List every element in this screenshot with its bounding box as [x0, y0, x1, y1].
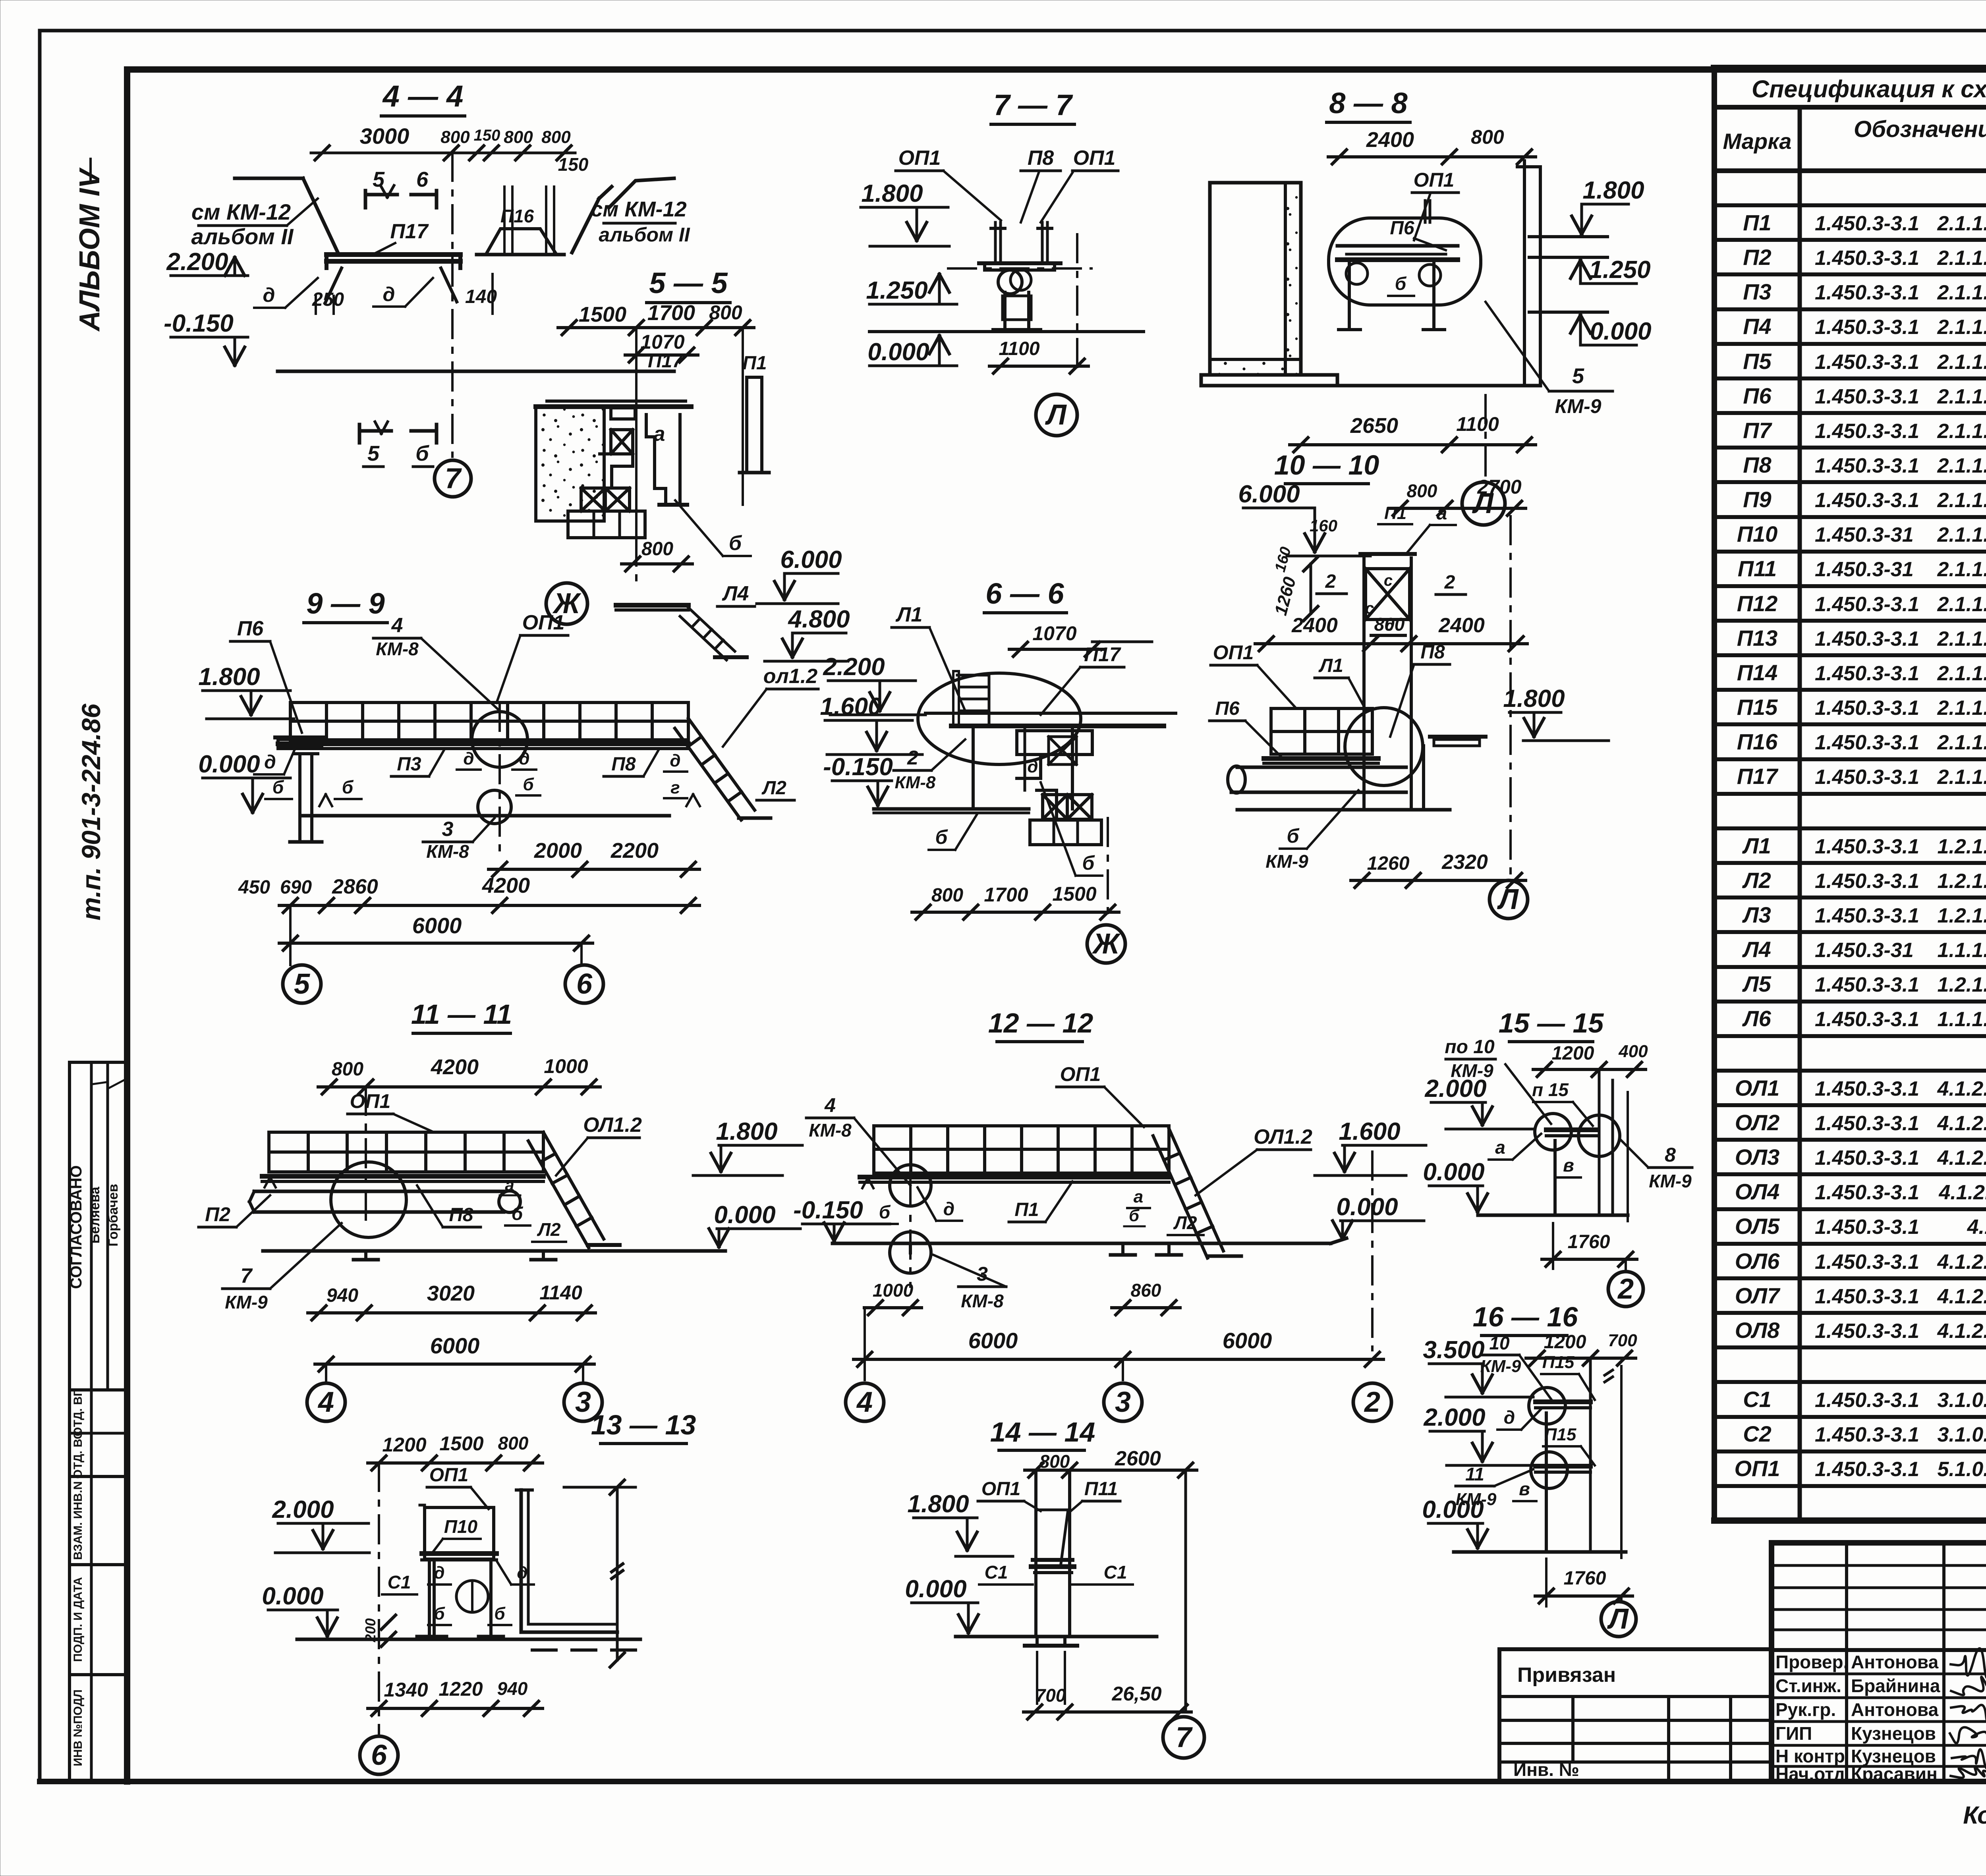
svg-text:3: 3 [575, 1386, 591, 1418]
svg-text:С1: С1 [1104, 1562, 1127, 1583]
svg-text:ОП1: ОП1 [350, 1090, 391, 1112]
svg-text:б: б [512, 1203, 524, 1224]
floor slab 5-5 [547, 400, 686, 403]
svg-text:1100: 1100 [1456, 413, 1499, 435]
svg-text:2860: 2860 [332, 875, 378, 898]
svg-text:14 — 14: 14 — 14 [990, 1417, 1095, 1448]
svg-text:4200: 4200 [482, 874, 530, 897]
platform railing 11-11 [269, 1132, 543, 1172]
axis circles 4 3 2 12-12 [864, 1308, 866, 1380]
svg-text:ОП1: ОП1 [898, 147, 941, 170]
svg-text:1200: 1200 [1552, 1043, 1594, 1064]
svg-text:2.000: 2.000 [1424, 1075, 1486, 1102]
platform railing 9-9 [290, 703, 688, 740]
svg-text:КМ-9: КМ-9 [1555, 395, 1602, 417]
floor line 11-11 [262, 1174, 543, 1179]
svg-text:П3: П3 [1743, 279, 1771, 304]
svg-text:150: 150 [474, 127, 500, 144]
svg-text:1000: 1000 [544, 1055, 588, 1077]
svg-text:2.1.1.0.0-18: 2.1.1.0.0-18 [1937, 662, 1986, 685]
svg-text:690: 690 [280, 877, 312, 898]
axis circle 6 13-13 [378, 1731, 380, 1736]
dim 1760 16-16 [1535, 1594, 1632, 1598]
svg-text:2.1.1.0.0-25: 2.1.1.0.0-25 [1937, 454, 1986, 477]
svg-text:т.п. 901-3-224.86: т.п. 901-3-224.86 [76, 703, 106, 921]
svg-text:1.450.3-3.1: 1.450.3-3.1 [1815, 1423, 1919, 1446]
svg-text:Л1: Л1 [1742, 833, 1771, 858]
svg-text:Л: Л [1607, 1603, 1629, 1635]
svg-text:800: 800 [1471, 126, 1504, 148]
svg-text:3.1.0.1.0-01: 3.1.0.1.0-01 [1937, 1389, 1986, 1412]
svg-text:12 — 12: 12 — 12 [988, 1007, 1093, 1038]
svg-text:1.450.3-3.1: 1.450.3-3.1 [1815, 1320, 1919, 1343]
svg-text:2.200: 2.200 [823, 653, 885, 681]
svg-text:1.450.3-3.1: 1.450.3-3.1 [1815, 351, 1919, 374]
svg-text:7: 7 [445, 463, 462, 494]
svg-text:П1: П1 [1743, 210, 1771, 235]
svg-text:б: б [415, 442, 429, 465]
svg-text:Л1: Л1 [1318, 655, 1343, 676]
spec table outer border [1714, 65, 1986, 72]
svg-text:800: 800 [709, 301, 742, 324]
axis dash line 7-7 horizontal [948, 267, 1092, 270]
svg-text:П8: П8 [449, 1204, 473, 1226]
vertical dim right 13-13 [616, 1487, 619, 1660]
right ladder OL1.2 9-9 [688, 718, 755, 810]
drawing frame thick [124, 69, 130, 1781]
right verticals 16-16 [1589, 1358, 1592, 1552]
svg-text:2.1.1.0.0-13: 2.1.1.0.0-13 [1937, 351, 1986, 374]
svg-text:П15: П15 [1542, 1353, 1575, 1372]
svg-text:1.450.3-3.1: 1.450.3-3.1 [1815, 697, 1919, 720]
svg-text:1260: 1260 [1367, 853, 1410, 874]
dims 1200 1500 800 13-13 [368, 1461, 543, 1465]
x-brace boxes 5-5 lower [581, 488, 605, 511]
svg-text:-0.150: -0.150 [823, 753, 893, 781]
svg-text:Обозначение: Обозначение [1854, 116, 1986, 142]
svg-text:700: 700 [1036, 1685, 1066, 1706]
svg-text:1.800: 1.800 [1582, 177, 1644, 204]
svg-text:3.500: 3.500 [1423, 1336, 1484, 1364]
pipe circle 7-7 [998, 270, 1022, 294]
axis dash 11-11 [365, 1087, 367, 1227]
ground 6-6 [874, 807, 1029, 811]
svg-text:4 — 4: 4 — 4 [382, 79, 464, 113]
platform trapezoid 14-14 [1037, 1510, 1068, 1567]
svg-text:2: 2 [1364, 1386, 1380, 1418]
svg-text:б: б [342, 777, 354, 797]
svg-text:5: 5 [367, 442, 380, 465]
svg-text:1.450.3-3.1: 1.450.3-3.1 [1815, 281, 1919, 304]
svg-text:в: в [1563, 1155, 1574, 1175]
svg-text:3020: 3020 [427, 1282, 475, 1305]
spec table header grid [1714, 105, 1986, 110]
svg-text:д: д [670, 751, 680, 770]
svg-text:б: б [729, 532, 742, 555]
svg-text:860: 860 [1131, 1280, 1161, 1301]
beam under slab [611, 408, 635, 419]
svg-text:6000: 6000 [430, 1333, 480, 1358]
dim 1260 left 10-10 [1310, 564, 1312, 614]
platform bar upper 16-16 [1536, 1399, 1590, 1404]
svg-text:П3: П3 [397, 754, 421, 775]
posts 10-10 [1422, 746, 1425, 810]
svg-text:б: б [1287, 825, 1300, 847]
svg-text:4.1.2.1.0-11: 4.1.2.1.0-11 [1938, 1181, 1986, 1204]
svg-text:0.000: 0.000 [1422, 1496, 1484, 1523]
svg-text:1.450.3-3.1: 1.450.3-3.1 [1815, 1077, 1919, 1100]
svg-text:450: 450 [238, 877, 270, 898]
svg-text:2: 2 [1617, 1273, 1634, 1305]
title block attach table [1499, 1649, 1772, 1781]
stand posts 7-7 [994, 222, 997, 263]
svg-text:д: д [943, 1199, 954, 1219]
svg-text:1.450.3-3.1: 1.450.3-3.1 [1815, 1285, 1919, 1308]
svg-text:800: 800 [498, 1433, 529, 1453]
svg-text:7: 7 [1176, 1722, 1193, 1753]
svg-text:Рук.гр.: Рук.гр. [1775, 1699, 1836, 1720]
svg-text:П11: П11 [1084, 1478, 1118, 1500]
title block main frame [1772, 1543, 1986, 1781]
dim 800 bottom 5-5 [622, 562, 692, 566]
svg-text:П13: П13 [1737, 625, 1778, 650]
svg-text:г: г [670, 778, 680, 797]
svg-text:5 — 5: 5 — 5 [649, 266, 728, 299]
stand platform 7-7 [979, 261, 1061, 265]
svg-text:1.450.3-3.1: 1.450.3-3.1 [1815, 973, 1919, 996]
feet 14-14 [1036, 1637, 1039, 1646]
title block signature rows [1772, 1673, 1986, 1675]
svg-text:2: 2 [1325, 571, 1336, 592]
svg-text:по 10: по 10 [1445, 1036, 1495, 1058]
floor line 9-9 [278, 741, 688, 746]
platform deck 6-6 [925, 712, 1176, 715]
platform oval callout 8-8 [1329, 218, 1481, 305]
x-brace right 6-6 [1049, 737, 1076, 764]
svg-text:ОЛ7: ОЛ7 [1735, 1283, 1781, 1308]
svg-text:2.1.1.0.0-21: 2.1.1.0.0-21 [1937, 627, 1986, 650]
svg-text:1140: 1140 [539, 1282, 582, 1304]
axis circle L 10-10 [1489, 880, 1528, 919]
svg-text:ИНВ №ПОДЛ: ИНВ №ПОДЛ [71, 1689, 85, 1766]
svg-text:1.2.1.0.0-01: 1.2.1.0.0-01 [1937, 835, 1986, 858]
svg-text:ОЛ1: ОЛ1 [1735, 1075, 1779, 1100]
supports 13-13 [428, 1563, 431, 1637]
right vertical dim 14-14 [1184, 1470, 1187, 1712]
svg-text:см КМ-12: см КМ-12 [591, 197, 686, 221]
svg-text:6.000: 6.000 [780, 546, 842, 573]
column base 11-11 [364, 1251, 367, 1260]
dims 1200 400 15-15 [1533, 1068, 1646, 1071]
dims 800 1700 1500 6-6 [912, 911, 1119, 914]
svg-text:Провер.: Провер. [1775, 1652, 1848, 1672]
svg-text:ОЛ5: ОЛ5 [1735, 1214, 1780, 1239]
svg-text:ОЛ3: ОЛ3 [1735, 1145, 1779, 1170]
svg-text:б: б [879, 1202, 891, 1222]
svg-text:6.000: 6.000 [1238, 481, 1300, 508]
floor line 12-12 [860, 1175, 1169, 1179]
svg-text:П2: П2 [205, 1203, 230, 1226]
svg-text:с: с [1365, 600, 1374, 617]
svg-text:800: 800 [1039, 1451, 1070, 1472]
svg-text:1.800: 1.800 [716, 1118, 777, 1145]
svg-text:800: 800 [440, 127, 470, 147]
svg-text:а: а [505, 1175, 514, 1194]
svg-text:0.000: 0.000 [1423, 1158, 1484, 1186]
svg-text:Кузнецов: Кузнецов [1851, 1723, 1936, 1744]
svg-text:ГИП: ГИП [1775, 1723, 1812, 1744]
svg-text:1.2.1.0.0-05: 1.2.1.0.0-05 [1937, 870, 1986, 893]
svg-text:П7: П7 [1743, 418, 1772, 443]
svg-text:1.450.3-3.1: 1.450.3-3.1 [1815, 489, 1919, 512]
detail circle big 9-9 [472, 712, 527, 767]
axis dash 13-13 [378, 1463, 380, 1731]
svg-text:П2: П2 [1743, 245, 1771, 270]
dim 6000 11-11 [315, 1363, 594, 1366]
ground line 7-7 [869, 330, 1144, 333]
P17 platform element 6-6 [1017, 731, 1092, 755]
svg-text:1.250: 1.250 [1589, 256, 1650, 284]
svg-text:ПОДП. И ДАТА: ПОДП. И ДАТА [71, 1577, 85, 1662]
x-brace box 5-5 upper [611, 430, 633, 454]
svg-text:д: д [383, 283, 395, 305]
inv no podl box [70, 1675, 126, 1781]
svg-text:Л5: Л5 [1742, 971, 1771, 996]
svg-text:200: 200 [362, 1618, 379, 1642]
svg-text:1.450.3-3.1: 1.450.3-3.1 [1815, 420, 1919, 443]
svg-text:1.450.3-31: 1.450.3-31 [1815, 558, 1914, 581]
svg-text:б: б [935, 826, 949, 848]
svg-text:4: 4 [391, 614, 403, 637]
svg-text:Л3: Л3 [1742, 902, 1771, 927]
svg-text:Л2: Л2 [1173, 1212, 1197, 1233]
svg-text:С1: С1 [388, 1572, 411, 1592]
dims 700 2650 14-14 [1024, 1710, 1191, 1714]
svg-text:П17: П17 [390, 220, 429, 243]
svg-text:2.1.1.0.0-10: 2.1.1.0.0-10 [1937, 558, 1986, 581]
svg-text:2600: 2600 [1115, 1447, 1161, 1470]
svg-text:Ст.инж.: Ст.инж. [1775, 1675, 1841, 1696]
svg-text:4: 4 [317, 1386, 334, 1418]
svg-text:д: д [463, 749, 474, 768]
dashed line 13-13 [532, 1648, 636, 1652]
svg-text:3: 3 [442, 818, 454, 841]
svg-text:П15: П15 [1737, 695, 1778, 720]
svg-text:ОЛ4: ОЛ4 [1735, 1179, 1779, 1204]
dims 2650 1100 8-8 [1290, 443, 1536, 446]
svg-text:Беляева: Беляева [87, 1186, 102, 1243]
svg-text:10: 10 [1489, 1333, 1510, 1353]
svg-text:КМ-8: КМ-8 [426, 841, 469, 862]
svg-text:ОП1: ОП1 [981, 1478, 1021, 1500]
svg-text:а: а [1134, 1187, 1143, 1206]
svg-text:1500: 1500 [1052, 883, 1096, 905]
svg-text:4200: 4200 [431, 1055, 479, 1079]
svg-text:8: 8 [1665, 1144, 1676, 1166]
svg-text:а: а [1495, 1137, 1505, 1158]
svg-text:0.000: 0.000 [198, 751, 260, 778]
tank wall 8-8 [1210, 183, 1301, 375]
signatures scribble [1951, 1648, 1986, 1678]
svg-text:4.1.2.1.0: 4.1.2.1.0 [1967, 1216, 1986, 1239]
svg-text:1.450.3-31: 1.450.3-31 [1815, 939, 1914, 962]
svg-text:ОТД. ВС: ОТД. ВС [71, 1430, 85, 1478]
svg-text:П16: П16 [1737, 729, 1778, 754]
svg-text:13 — 13: 13 — 13 [591, 1409, 696, 1440]
svg-text:1.450.3-3.1: 1.450.3-3.1 [1815, 316, 1919, 339]
svg-text:1.450.3-3.1: 1.450.3-3.1 [1815, 1181, 1919, 1204]
svg-text:0.000: 0.000 [867, 338, 929, 366]
svg-text:б: б [272, 777, 284, 797]
svg-text:1.450.3-3.1: 1.450.3-3.1 [1815, 870, 1919, 893]
svg-text:0.000: 0.000 [1336, 1193, 1398, 1221]
pipe 10-10 [1237, 766, 1406, 769]
svg-text:5: 5 [294, 968, 310, 1000]
svg-text:3.1.0.1.0-02: 3.1.0.1.0-02 [1937, 1423, 1986, 1446]
brick base 5-5 [568, 511, 645, 538]
svg-text:1.800: 1.800 [907, 1490, 969, 1518]
svg-text:10 — 10: 10 — 10 [1274, 450, 1379, 481]
platform railing 10-10 [1271, 708, 1372, 754]
svg-text:П6: П6 [1743, 383, 1772, 408]
svg-text:0.000: 0.000 [714, 1201, 775, 1229]
svg-text:д: д [263, 284, 275, 306]
svg-text:1.450.3-3.1: 1.450.3-3.1 [1815, 593, 1919, 616]
svg-text:1.800: 1.800 [861, 180, 923, 207]
svg-text:ОП1: ОП1 [1414, 169, 1455, 191]
svg-text:б: б [494, 1604, 506, 1623]
svg-text:Л6: Л6 [1742, 1006, 1771, 1031]
svg-text:ОП1: ОП1 [429, 1465, 469, 1486]
svg-text:150: 150 [558, 154, 589, 175]
svg-text:КМ-8: КМ-8 [809, 1120, 852, 1141]
svg-text:Красавин: Красавин [1851, 1764, 1938, 1784]
svg-text:2.1.1.0.0-22: 2.1.1.0.0-22 [1937, 247, 1986, 270]
svg-text:д: д [1027, 757, 1038, 776]
svg-text:2.200: 2.200 [166, 248, 228, 276]
svg-text:1200: 1200 [1544, 1332, 1586, 1353]
svg-text:2.1.1.0.0-37: 2.1.1.0.0-37 [1937, 212, 1986, 235]
dim 6000 9-9 [279, 942, 593, 945]
svg-text:П8: П8 [1743, 452, 1772, 477]
svg-text:КМ-8: КМ-8 [961, 1291, 1004, 1311]
svg-text:6 — 6: 6 — 6 [985, 577, 1064, 610]
svg-text:П14: П14 [1737, 660, 1778, 685]
svg-text:1.450.3-3.1: 1.450.3-3.1 [1815, 731, 1919, 754]
svg-text:5.1.0.1.0-13: 5.1.0.1.0-13 [1937, 1458, 1986, 1481]
svg-text:1.450.3-3.1: 1.450.3-3.1 [1815, 247, 1919, 270]
svg-text:6: 6 [416, 168, 429, 191]
axis dash line 4-4 [451, 153, 454, 457]
svg-text:6000: 6000 [968, 1328, 1018, 1353]
svg-text:СОГЛАСОВАНО: СОГЛАСОВАНО [68, 1165, 85, 1289]
svg-text:4.1.2.1.0-10: 4.1.2.1.0-10 [1937, 1112, 1986, 1135]
svg-text:альбом II: альбом II [191, 224, 294, 249]
svg-text:0.000: 0.000 [905, 1575, 966, 1603]
column 14-14 [1034, 1473, 1037, 1637]
svg-text:2.1.1.0.0-01: 2.1.1.0.0-01 [1937, 420, 1986, 443]
dims 2400 800 8-8 [1328, 155, 1536, 158]
svg-text:0.000: 0.000 [262, 1583, 323, 1610]
svg-text:д: д [1504, 1407, 1515, 1428]
axis circle 2 15-15 [1625, 1259, 1627, 1271]
svg-text:с: с [1384, 572, 1393, 589]
svg-text:ОЛ1.2: ОЛ1.2 [583, 1114, 642, 1137]
svg-text:б: б [1082, 852, 1095, 874]
svg-text:1.800: 1.800 [1503, 685, 1565, 712]
svg-text:3000: 3000 [360, 124, 410, 149]
ladder OL1.2 12-12 [1169, 1129, 1223, 1251]
platform railing 12-12 [874, 1126, 1169, 1173]
svg-text:см КМ-12: см КМ-12 [191, 199, 291, 224]
left walkway edge [235, 177, 303, 180]
ground 13-13 [297, 1638, 640, 1641]
dims 2000 2200 9-9 [489, 868, 699, 871]
svg-text:2.1.1.0.0-19: 2.1.1.0.0-19 [1937, 281, 1986, 304]
axis line 10-10 [1509, 516, 1512, 878]
svg-text:2320: 2320 [1441, 851, 1488, 874]
svg-text:11: 11 [1465, 1464, 1484, 1484]
svg-text:6: 6 [576, 968, 593, 1000]
svg-text:2: 2 [1444, 572, 1455, 593]
svg-text:1500: 1500 [579, 303, 626, 326]
svg-text:Привязан: Привязан [1517, 1664, 1616, 1687]
svg-text:П12: П12 [1737, 591, 1778, 616]
svg-text:1.450.3-3.1: 1.450.3-3.1 [1815, 385, 1919, 408]
svg-text:2.1.1.0.0-28: 2.1.1.0.0-28 [1937, 731, 1986, 754]
platform bar 15-15 [1546, 1127, 1597, 1132]
svg-text:1700: 1700 [647, 301, 695, 325]
column bases 12-12 [909, 1243, 912, 1253]
axis circle L 7-7 [1076, 234, 1078, 373]
svg-text:8 — 8: 8 — 8 [1329, 87, 1408, 120]
dims 800 2700 10-10 [1389, 507, 1526, 510]
ground 16-16 [1454, 1550, 1626, 1554]
svg-text:П6: П6 [1390, 218, 1414, 239]
dims 940 3020 1140 11-11 [308, 1311, 595, 1314]
svg-text:П17: П17 [1737, 764, 1779, 789]
svg-text:КМ-9: КМ-9 [225, 1292, 268, 1312]
axis circle Zh 5-5 [546, 583, 587, 624]
svg-text:2.1.1.0.0-16: 2.1.1.0.0-16 [1937, 385, 1986, 408]
bolt circles 8-8 [1346, 263, 1368, 284]
svg-text:4.1.2.1.0-14: 4.1.2.1.0-14 [1937, 1320, 1986, 1343]
svg-text:1700: 1700 [984, 884, 1028, 906]
svg-text:Ж: Ж [1092, 928, 1121, 960]
svg-text:в: в [1519, 1478, 1530, 1499]
svg-text:ОП1: ОП1 [522, 611, 565, 634]
post 15-15 [1553, 1141, 1557, 1215]
svg-text:800: 800 [504, 127, 533, 147]
dims 1000 860 12-12 [864, 1306, 922, 1309]
right verticals 15-15 [1598, 1069, 1601, 1215]
axis circles 5 6 9-9 [289, 905, 292, 965]
svg-text:1000: 1000 [873, 1280, 914, 1301]
svg-text:800: 800 [1407, 481, 1437, 501]
svg-text:1.800: 1.800 [198, 663, 260, 691]
svg-text:Л1: Л1 [895, 603, 923, 626]
svg-text:4.1.2.1.0-01: 4.1.2.1.0-01 [1937, 1077, 1986, 1100]
dims 800 4200 1000 11-11 [318, 1085, 600, 1089]
svg-text:1.600: 1.600 [1339, 1118, 1400, 1145]
svg-text:ОЛ6: ОЛ6 [1735, 1249, 1780, 1274]
svg-text:2400: 2400 [1291, 614, 1338, 637]
axis circle L 8-8 [1484, 395, 1487, 476]
podp i data box [70, 1565, 126, 1675]
svg-text:а: а [1437, 503, 1447, 524]
stair steps small 6-6 [957, 675, 989, 726]
axis circle L 16-16 [1620, 1596, 1623, 1602]
